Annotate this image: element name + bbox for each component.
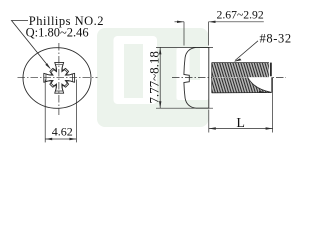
recess inner contour <box>46 65 72 91</box>
thread outline bottom <box>212 92 272 94</box>
svg-text:4.62: 4.62 <box>52 124 73 138</box>
thread start edge <box>211 63 213 93</box>
head profile <box>184 47 209 108</box>
extension lines <box>44 80 46 143</box>
end face <box>271 77 273 92</box>
root wedge at point <box>259 91 272 93</box>
dimension L <box>208 110 210 133</box>
dimension 2.67~2.92 (head height) <box>183 22 185 46</box>
head outline (front) <box>23 48 91 109</box>
axis centerline <box>172 77 286 79</box>
#8-32 leader arrowhead <box>234 58 242 61</box>
svg-text:Q:1.80~2.46: Q:1.80~2.46 <box>26 26 89 40</box>
dimension line <box>45 138 76 140</box>
leader line to recess <box>12 21 50 69</box>
arrowheads 2.67~2.92 <box>177 21 184 23</box>
watermark logo background <box>97 28 209 127</box>
thread outline top <box>212 62 269 64</box>
arrowheads 7.77~8.18 <box>159 47 161 54</box>
horizontal centerline <box>18 77 98 79</box>
dimension 7.77~8.18 (head dia, vertical) <box>156 46 213 48</box>
threads <box>206 62 277 93</box>
arrowheads 4.62 <box>45 138 52 140</box>
chamfer runout arc <box>248 77 271 92</box>
svg-text:#8-32: #8-32 <box>260 32 292 46</box>
last thread crest bar <box>270 63 272 77</box>
svg-text:7.77~8.18: 7.77~8.18 <box>147 51 162 104</box>
phillips cross recess outline <box>44 62 75 93</box>
svg-text:L: L <box>236 116 245 131</box>
leader arrowhead <box>45 63 51 69</box>
thread pitch seam <box>212 77 269 79</box>
chamfer point mask <box>248 62 272 92</box>
arrowheads L <box>209 127 216 129</box>
svg-text:2.67~2.92: 2.67~2.92 <box>217 9 264 22</box>
vertical centerline <box>58 43 60 115</box>
